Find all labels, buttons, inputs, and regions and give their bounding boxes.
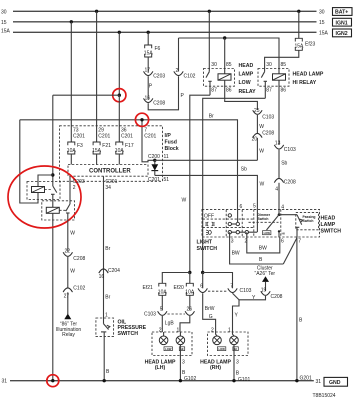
connector C208 pin 19 xyxy=(261,287,283,300)
switch blade relay K2 xyxy=(66,201,70,220)
head lamp RH dashed box xyxy=(208,332,249,356)
svg-text:86: 86 xyxy=(226,88,232,94)
svg-text:LIGHT: LIGHT xyxy=(197,240,213,246)
svg-text:Ef21: Ef21 xyxy=(143,285,154,291)
svg-text:30: 30 xyxy=(211,62,217,68)
svg-text:10A: 10A xyxy=(185,289,195,295)
wire junction y95 left to x52.8 then handled below xyxy=(53,94,120,96)
svg-text:IGN2: IGN2 xyxy=(336,31,348,37)
wire relay coil feed horizontal y38 xyxy=(179,38,280,74)
wire C208-4 down to switch pin 4 xyxy=(278,183,280,210)
wire F3 to controller xyxy=(70,154,72,165)
wire bus 30 xyxy=(13,10,317,12)
svg-text:Block: Block xyxy=(165,146,179,152)
svg-text:IGN1: IGN1 xyxy=(336,20,348,26)
label HEAD LAMP (LH) xyxy=(145,359,176,371)
svg-text:B: B xyxy=(259,257,263,263)
svg-text:C201: C201 xyxy=(144,133,156,139)
svg-text:3: 3 xyxy=(182,360,185,366)
svg-text:10A: 10A xyxy=(115,148,125,154)
svg-text:LOW: LOW xyxy=(165,347,172,351)
svg-text:13: 13 xyxy=(275,141,281,147)
node junction on bus 15 at x71.3 xyxy=(70,20,73,23)
wire W between C103-25 and C208-20 xyxy=(256,115,258,133)
label OIL PRESSURE SWITCH xyxy=(118,319,147,337)
svg-text:G102: G102 xyxy=(184,376,196,382)
svg-text:C103: C103 xyxy=(262,115,274,121)
svg-text:Ef23: Ef23 xyxy=(305,41,316,47)
lamp LH low xyxy=(159,332,168,345)
head lamp switch outer dashed box xyxy=(202,209,320,237)
svg-text:W: W xyxy=(182,197,187,203)
wire dot2 right to C103-7 xyxy=(203,273,233,289)
block I/P fuse block dashed box xyxy=(60,126,163,182)
svg-text:85: 85 xyxy=(226,62,232,68)
svg-text:B: B xyxy=(106,369,110,375)
wire C200-11 output right xyxy=(155,159,258,161)
svg-text:LOW: LOW xyxy=(264,231,271,235)
svg-text:C201: C201 xyxy=(148,177,160,183)
svg-text:BrW: BrW xyxy=(205,306,215,312)
svg-text:F6: F6 xyxy=(155,46,161,52)
tag HI RH xyxy=(233,347,238,351)
svg-text:HI RELAY: HI RELAY xyxy=(293,80,317,86)
svg-text:C208: C208 xyxy=(284,180,296,186)
svg-text:2: 2 xyxy=(73,185,76,191)
wire HI contact down to pin 6 bottom xyxy=(278,231,280,237)
svg-text:LOW: LOW xyxy=(239,80,251,86)
wire Ef20 to C103-26 xyxy=(189,295,191,310)
pin 29 C201 xyxy=(98,128,110,140)
label HEAD LAMP SWITCH xyxy=(321,216,342,235)
relay U-low box xyxy=(204,69,235,87)
svg-text:W: W xyxy=(70,268,75,274)
svg-text:16: 16 xyxy=(99,274,105,280)
svg-text:(RH): (RH) xyxy=(210,365,221,371)
svg-text:T8B15024: T8B15024 xyxy=(313,393,336,399)
svg-text:34: 34 xyxy=(105,185,111,191)
connector C102 pin 27 xyxy=(63,286,85,300)
fuse Ef23 15A xyxy=(295,38,316,50)
svg-text:17: 17 xyxy=(145,67,151,73)
svg-text:87: 87 xyxy=(211,88,217,94)
tag LOW RH xyxy=(217,347,225,351)
svg-text:10A: 10A xyxy=(158,289,168,295)
node BAT+ box xyxy=(333,8,353,16)
fuse F21 15A xyxy=(92,142,111,154)
wire pin7 C201 drop into block xyxy=(142,120,155,162)
svg-text:87: 87 xyxy=(266,88,272,94)
svg-text:C201: C201 xyxy=(73,133,85,139)
svg-text:C208: C208 xyxy=(153,101,165,107)
svg-text:Sb: Sb xyxy=(241,167,247,173)
pin C201 34 xyxy=(105,179,117,191)
svg-text:Br: Br xyxy=(105,246,110,252)
node junction C200-11 xyxy=(153,159,156,162)
svg-text:15: 15 xyxy=(1,20,7,26)
svg-text:Br: Br xyxy=(209,114,214,120)
svg-text:BAT+: BAT+ xyxy=(335,10,348,16)
svg-text:SWITCH: SWITCH xyxy=(118,331,139,337)
wire C208-16 down right and up to C102 pin 2 xyxy=(148,76,178,110)
svg-text:15: 15 xyxy=(319,20,325,26)
inner dashed divider dimmer right xyxy=(280,209,282,237)
svg-text:C208: C208 xyxy=(262,131,274,137)
node junction on bus 15A at x148.2 xyxy=(147,31,150,34)
wire pin3 down BW xyxy=(230,232,284,264)
svg-text:C208: C208 xyxy=(271,294,283,300)
wire hi relay pin 86 down xyxy=(278,80,280,145)
node ground junction oil switch xyxy=(103,379,106,382)
svg-text:HEAD LAMP: HEAD LAMP xyxy=(293,72,324,78)
connector C103 pin 13 on HI-86 wire xyxy=(274,141,296,153)
coil low relay xyxy=(218,74,231,80)
node junction on bus 15A at x119.3 xyxy=(118,31,121,34)
svg-text:6: 6 xyxy=(281,239,284,245)
svg-text:7: 7 xyxy=(298,239,301,245)
svg-text:15A: 15A xyxy=(92,148,102,154)
dashed actuator link K1 xyxy=(45,189,53,191)
wire C103-6 down BrW to G jog to RH low xyxy=(203,293,216,332)
svg-text:6: 6 xyxy=(200,284,203,290)
switch blade low relay xyxy=(206,72,212,96)
fuse Ef21 10A xyxy=(143,283,168,295)
svg-text:BW: BW xyxy=(232,251,240,257)
highlight red circle around junction xyxy=(113,89,126,102)
highlight red circle around pin7 junction xyxy=(135,113,148,126)
svg-text:C103: C103 xyxy=(144,312,156,318)
fuse F3 10A xyxy=(67,142,83,154)
svg-text:BW: BW xyxy=(259,245,267,251)
svg-text:LAMP: LAMP xyxy=(321,222,336,228)
tag LOW LH xyxy=(164,347,172,351)
contact row parking xyxy=(228,222,239,225)
wire C102-27 down to terminal triangle xyxy=(67,292,69,314)
wire continuing down to fuse F17 pin 36 xyxy=(118,95,120,142)
connector C103 pin 26 xyxy=(185,307,194,316)
node junction pin7 drop on y119.8 xyxy=(140,118,143,121)
wire F21 to controller xyxy=(96,154,98,165)
node ground junction G102 xyxy=(179,379,182,382)
svg-text:P: P xyxy=(181,93,185,99)
svg-text:OFF: OFF xyxy=(204,213,214,219)
node contact HI xyxy=(278,230,280,232)
svg-text:RELAY: RELAY xyxy=(239,89,257,95)
svg-text:11: 11 xyxy=(164,154,169,160)
dimmer blade to LOW xyxy=(267,215,280,230)
svg-text:C103: C103 xyxy=(240,288,252,294)
diode D1 xyxy=(151,160,158,175)
connector C103 pin 6 xyxy=(198,284,207,293)
contact row head xyxy=(228,231,257,234)
wire dot1 left to Ef21 xyxy=(162,273,190,284)
wire passing switch common from pivot xyxy=(279,214,297,216)
svg-text:LAMP: LAMP xyxy=(239,72,254,78)
svg-text:20: 20 xyxy=(252,137,258,143)
node junction coil feed at x224.7 xyxy=(223,36,226,39)
node dot1 LOW feed xyxy=(188,271,191,274)
contact LOW boxed label xyxy=(263,231,271,235)
node dimmer pivot xyxy=(278,213,281,216)
inner dashed divider light/dimmer xyxy=(253,209,255,237)
dashed grid row separators xyxy=(203,218,254,220)
dashed link C103 6-7 xyxy=(208,290,228,292)
svg-text:4: 4 xyxy=(275,187,278,193)
wire Ef23 down left down to HI relay pin 30 xyxy=(265,50,299,71)
coil relay K1 xyxy=(32,187,45,193)
node IGN1 box xyxy=(333,18,352,26)
svg-text:26: 26 xyxy=(187,307,193,313)
connector C203 pin 17 xyxy=(144,67,166,79)
svg-text:GND: GND xyxy=(329,380,341,386)
switch blade hi relay xyxy=(261,72,267,99)
label Cluster A26 Ter xyxy=(255,265,276,277)
wire main left vertical from y95 junction down xyxy=(52,95,54,183)
svg-text:15A: 15A xyxy=(1,28,11,34)
svg-text:5: 5 xyxy=(160,307,163,313)
node dot2 HI feed xyxy=(201,271,204,274)
fuse Ef20 10A xyxy=(174,283,195,295)
node junction on bus 30 at x298.8 xyxy=(297,10,300,13)
svg-text:27: 27 xyxy=(64,294,70,300)
wire bus 15 xyxy=(13,21,317,23)
svg-text:HEAD: HEAD xyxy=(239,63,254,69)
svg-text:F17: F17 xyxy=(125,143,134,149)
svg-text:5: 5 xyxy=(253,204,256,210)
wire main Br horizontal y119.8 xyxy=(20,120,238,210)
connector C103 pin 25 xyxy=(253,108,275,121)
label I/P Fuse Block xyxy=(165,133,179,152)
node junction at (119.3,95.2) red circled xyxy=(118,94,121,97)
label LIGHT SWITCH xyxy=(197,240,218,252)
terminal triangle 86 Ter xyxy=(64,314,71,320)
svg-text:“A26” Ter: “A26” Ter xyxy=(255,271,276,277)
connector C103 pin 5 xyxy=(144,307,167,318)
svg-text:Switch: Switch xyxy=(258,217,269,221)
dashed link to dimmer xyxy=(249,221,279,223)
wire controller C201-34 down to oil pressure switch xyxy=(103,176,105,318)
svg-text:B: B xyxy=(299,318,303,324)
svg-text:C103: C103 xyxy=(284,147,296,153)
label HEAD LAMP (RH) xyxy=(200,359,231,371)
svg-text:W: W xyxy=(259,148,264,154)
svg-text:30: 30 xyxy=(1,9,7,15)
passing blade xyxy=(295,215,303,237)
fuse F17 10A xyxy=(115,142,134,154)
wire Sb between C103-13 and C208-4 xyxy=(278,150,280,179)
svg-text:30: 30 xyxy=(266,62,272,68)
svg-text:HI: HI xyxy=(282,231,285,235)
svg-text:C201: C201 xyxy=(98,133,110,139)
svg-text:B: B xyxy=(236,371,240,377)
svg-text:C102: C102 xyxy=(73,286,85,292)
wire down jog to RH pin1 xyxy=(233,300,240,332)
wire K1 switch output down through K2 coil xyxy=(52,194,54,207)
label C200 | 11 xyxy=(148,154,169,160)
label C201 | 51 xyxy=(148,177,169,183)
svg-text:W: W xyxy=(259,124,264,130)
svg-text:HI: HI xyxy=(181,347,184,351)
wire from bus 30 down to fuse F21 xyxy=(96,11,98,142)
wire pin2 BW U-link to pin6 xyxy=(247,232,280,253)
svg-text:Y: Y xyxy=(235,313,239,319)
wire bus 31 xyxy=(10,380,314,382)
wire P from C203 to C208 pin 16 xyxy=(147,76,149,100)
svg-text:W: W xyxy=(70,231,75,237)
node junction on bus 30 at x96.6 xyxy=(95,10,98,13)
coil relay K2 xyxy=(46,207,59,213)
svg-text:15A: 15A xyxy=(144,51,154,57)
svg-text:51: 51 xyxy=(164,177,170,183)
pin 36 C201 xyxy=(121,128,133,140)
wire dimmer pin4 to pivot xyxy=(278,209,280,214)
connector C204 pin 16 xyxy=(99,268,121,280)
wire cluster triangle down to C208-19 xyxy=(265,282,267,291)
svg-text:Br: Br xyxy=(105,295,110,301)
lamp RH hi xyxy=(230,332,239,345)
svg-text:G201: G201 xyxy=(300,376,312,382)
node junction above relay K1 xyxy=(51,173,54,176)
dashed grid column separators xyxy=(225,210,227,237)
label HEAD LAMP LOW RELAY xyxy=(239,63,257,95)
wire K1 coil return to Br net xyxy=(20,120,38,203)
lamp RH low xyxy=(213,332,222,345)
wire C208-20 down to C200-11 line xyxy=(256,138,258,161)
node ground junction G101 xyxy=(232,379,235,382)
svg-text:G101: G101 xyxy=(238,377,250,383)
svg-text:G: G xyxy=(209,314,213,320)
icon head lights row xyxy=(206,230,211,235)
svg-text:Switch: Switch xyxy=(303,219,314,223)
wire LH ground xyxy=(179,345,181,381)
svg-text:HI: HI xyxy=(234,347,237,351)
svg-text:C201: C201 xyxy=(121,133,133,139)
wire C103-7 diagonal to Y node xyxy=(233,293,240,300)
svg-text:CONTROLLER: CONTROLLER xyxy=(89,169,131,175)
head lamp LH dashed box xyxy=(152,332,192,356)
node ground junction left relay chain red circled xyxy=(51,379,54,382)
svg-text:86: 86 xyxy=(281,88,287,94)
connector C208 pin 4 xyxy=(274,178,296,192)
wire K2 coil down long to ground bus xyxy=(52,213,54,380)
wire LOW-86 coil return elbow right xyxy=(225,100,258,110)
highlight red circle on ground junction xyxy=(47,375,59,387)
node ground junction G201 xyxy=(295,379,298,382)
connector C103 pin 7 xyxy=(228,284,252,294)
svg-text:C203: C203 xyxy=(153,74,165,80)
node junction on bus 30 at x209.3 xyxy=(208,10,211,13)
relay K1 dashed box xyxy=(27,182,60,200)
oil pressure switch dashed box xyxy=(96,318,114,337)
svg-text:P: P xyxy=(149,84,153,90)
svg-text:SWITCH: SWITCH xyxy=(321,229,342,235)
svg-text:Fusd: Fusd xyxy=(165,140,177,146)
wire C102-2 up to relay coil feed line xyxy=(178,38,180,72)
wire bus 15A xyxy=(13,31,317,33)
relay K2 dashed box xyxy=(42,201,75,220)
passing switch dashed box xyxy=(296,213,319,230)
svg-text:F3: F3 xyxy=(77,143,83,149)
connector C208 pin 20 xyxy=(252,131,275,143)
wire from bus 30 down to LOW relay pin 30 xyxy=(208,11,210,71)
svg-text:(LH): (LH) xyxy=(155,365,166,371)
svg-text:I/P: I/P xyxy=(165,133,172,139)
icon parking lights row xyxy=(205,222,215,226)
wire diagonal B to pin7 xyxy=(283,238,297,264)
wire from bus 15A down to fuse F6 xyxy=(147,32,149,45)
label "86" Ter Illumination Relay xyxy=(56,321,82,338)
wire from bus 15 down to fuse F3 xyxy=(70,22,72,142)
wire low relay pin 86 down xyxy=(224,80,226,100)
svg-text:C204: C204 xyxy=(108,268,120,274)
svg-text:10A: 10A xyxy=(67,148,77,154)
svg-text:15A: 15A xyxy=(319,31,329,37)
svg-text:31: 31 xyxy=(316,379,322,385)
wire RH ground xyxy=(233,345,235,381)
lamp LH hi xyxy=(176,332,185,345)
svg-text:3: 3 xyxy=(231,239,234,245)
wire switch pin6 into box xyxy=(237,209,239,222)
svg-text:3: 3 xyxy=(236,360,239,366)
wire F6 to connector C203 pin 17 xyxy=(147,57,149,73)
wire HI-87 output elbow down xyxy=(203,98,266,272)
wire LOW-87 output elbow down xyxy=(190,95,210,272)
wire branch to relay K1 coil xyxy=(38,175,53,187)
wire dimmer pin5 into box down to low contact xyxy=(256,209,258,232)
svg-text:30: 30 xyxy=(319,10,325,16)
wire junction down to LOW relay pin 85 coil xyxy=(224,38,226,74)
svg-text:F21: F21 xyxy=(102,143,111,149)
pin 73 C201 xyxy=(73,128,85,140)
wire C103-26 jog to LH hi xyxy=(180,316,190,332)
pin 7 C201 xyxy=(144,128,156,140)
svg-text:W: W xyxy=(260,182,265,188)
pressure switch symbol xyxy=(101,318,110,337)
label HEAD LAMP HI RELAY xyxy=(293,72,324,87)
svg-text:Relay: Relay xyxy=(62,332,75,338)
pin C203 2 xyxy=(73,179,85,191)
tag HI LH xyxy=(179,347,184,351)
wire Ef21 to C103-5 xyxy=(161,295,163,310)
svg-text:Sb: Sb xyxy=(281,160,287,166)
svg-text:22: 22 xyxy=(65,248,71,254)
svg-text:C208: C208 xyxy=(73,256,85,262)
svg-text:31: 31 xyxy=(2,379,8,385)
fuse F6 15A xyxy=(144,45,161,57)
node IGN2 box xyxy=(333,29,352,37)
svg-text:SWITCH: SWITCH xyxy=(197,246,218,252)
block CONTROLLER dashed box xyxy=(68,165,148,177)
label Passing Switch xyxy=(303,215,316,223)
contact circle OFF row xyxy=(228,214,231,217)
wire pin7 B down to ground xyxy=(296,237,298,381)
wire dot1 down to Ef20 xyxy=(189,273,191,284)
svg-text:7: 7 xyxy=(230,284,233,290)
coil hi relay xyxy=(273,74,286,80)
wire controller C203-2 down to relay K2 switch xyxy=(69,176,71,201)
switch blade relay K1 xyxy=(51,183,57,194)
wire oil switch down to ground bus xyxy=(103,337,105,381)
connector C208 pin 16 xyxy=(144,95,166,106)
connector C102 pin 2 xyxy=(174,68,196,80)
dashed actuator link K2 xyxy=(59,209,66,211)
svg-text:HEAD: HEAD xyxy=(321,216,336,222)
terminal triangle cluster xyxy=(262,276,269,282)
connector C208 pin 22 xyxy=(63,248,85,262)
svg-text:LOW: LOW xyxy=(219,347,226,351)
wire K2 switch output down to C208-22 xyxy=(67,220,69,252)
wire diode output C201-51 right to dimmer pin 5 column xyxy=(155,175,258,209)
